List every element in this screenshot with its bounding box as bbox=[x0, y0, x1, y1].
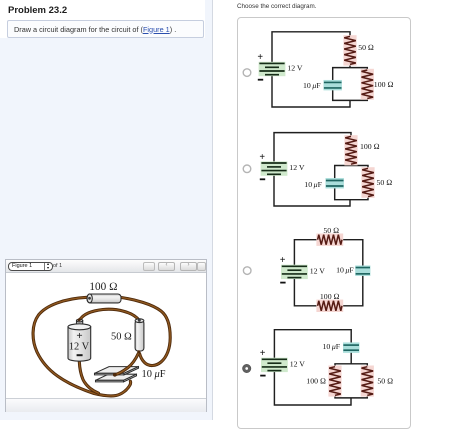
wire option2 outer loop bbox=[274, 133, 351, 206]
resistor R 50ohm option4 highlight bbox=[361, 366, 374, 397]
battery option3 minus terminal label bbox=[280, 282, 285, 284]
battery option1 minus terminal label bbox=[258, 79, 263, 81]
svg-text:12 V: 12 V bbox=[290, 360, 306, 369]
svg-text:+: + bbox=[257, 52, 263, 63]
wire battery+ to 50ohm resistor bbox=[79, 309, 139, 320]
figure toolbar small button bbox=[143, 262, 155, 271]
figure nav button next bbox=[180, 262, 197, 271]
figure panel header bar bbox=[6, 260, 206, 273]
capacitor C option4 10uF highlight bbox=[343, 342, 359, 352]
wire option1 outer loop bbox=[272, 32, 350, 107]
resistor R 50ohm option4 zigzag bbox=[362, 367, 374, 396]
capacitor 10uF top plate bbox=[95, 367, 139, 375]
capacitor C option3 plates bbox=[356, 268, 370, 274]
svg-text:+: + bbox=[259, 152, 265, 163]
answer options box bbox=[237, 17, 411, 429]
option 4 radio button (selected) bbox=[243, 364, 251, 372]
wire option1 inner parallel box bbox=[333, 68, 368, 101]
svg-text:50 Ω: 50 Ω bbox=[377, 178, 393, 187]
resistor R 50ohm option2 highlight bbox=[361, 167, 374, 198]
resistor R 100ohm option4 zigzag bbox=[329, 367, 341, 396]
wire battery- down to bottom junction bbox=[79, 361, 98, 393]
battery option3 cell plates bbox=[282, 266, 307, 277]
resistor R 100ohm option2 zigzag bbox=[345, 136, 357, 164]
svg-text:10 μF: 10 μF bbox=[336, 265, 354, 274]
resistor R 100ohm option4 highlight bbox=[328, 366, 341, 397]
svg-text:100 Ω: 100 Ω bbox=[360, 142, 380, 151]
resistor R 50ohm option3 zigzag bbox=[318, 235, 342, 245]
resistor R 100ohm option3 zigzag bbox=[318, 301, 342, 311]
resistor R 50ohm option2 zigzag bbox=[362, 168, 374, 196]
resistor R 100ohm option1 zigzag bbox=[362, 70, 374, 99]
problem title bbox=[8, 5, 67, 16]
capacitor C option2 plates bbox=[326, 181, 344, 187]
resistor R 100ohm option1 highlight bbox=[361, 69, 374, 100]
battery option2 minus terminal label bbox=[260, 178, 265, 180]
figure count label bbox=[53, 262, 62, 270]
capacitor C option1 10uF highlight bbox=[324, 80, 342, 90]
battery option1 cell plates bbox=[259, 63, 284, 74]
resistor R 50ohm option3 highlight bbox=[316, 234, 343, 246]
svg-text:10 μF: 10 μF bbox=[323, 342, 341, 351]
wire 100ohm right end around right side to 50ohm bottom bbox=[121, 297, 171, 365]
junction dot battery top terminal bbox=[78, 318, 81, 321]
vertical separator line bbox=[212, 0, 213, 420]
wire option4 outer loop bbox=[274, 330, 351, 405]
svg-text:12 V: 12 V bbox=[289, 163, 305, 172]
battery option4 minus terminal label bbox=[260, 375, 265, 377]
svg-text:12 V: 12 V bbox=[287, 64, 303, 73]
instruction box bbox=[7, 20, 204, 38]
battery B option2 12V highlight bbox=[261, 161, 288, 175]
option 1 circuit: 50ohm in series with (10uF parallel 100ohm) bbox=[243, 32, 393, 107]
option 3 radio button (unselected) bbox=[243, 267, 251, 275]
battery 12V terminal nub bbox=[77, 319, 83, 325]
left problem panel background bbox=[0, 38, 212, 420]
battery B option3 12V highlight bbox=[281, 265, 308, 279]
svg-text:100 Ω: 100 Ω bbox=[306, 377, 326, 386]
battery option4 cell plates bbox=[262, 359, 287, 370]
battery option2 cell plates bbox=[261, 163, 286, 174]
battery B option4 12V highlight bbox=[261, 358, 288, 372]
capacitor 10uF bottom plate bbox=[96, 374, 137, 382]
resistor R 50ohm option1 highlight bbox=[343, 35, 356, 65]
battery minus sign label bbox=[77, 354, 83, 356]
wire option3 loop bbox=[294, 240, 362, 306]
wire option2 inner parallel box bbox=[335, 166, 368, 200]
resistor 50ohm cylinder bbox=[135, 319, 144, 353]
svg-text:50 Ω: 50 Ω bbox=[358, 43, 374, 52]
figure panel bbox=[5, 259, 207, 412]
figure toolbar right button bbox=[197, 262, 206, 271]
resistor R 50ohm option1 zigzag bbox=[344, 36, 356, 64]
svg-text:10 μF: 10 μF bbox=[304, 180, 322, 189]
figure selector dropdown bbox=[8, 262, 53, 271]
capacitor C option1 plates bbox=[324, 82, 342, 88]
capacitor C option4 plates bbox=[343, 345, 359, 350]
option 2 radio button (unselected) bbox=[243, 165, 251, 173]
wire 50ohm bottom to capacitor top plate bbox=[115, 354, 139, 375]
resistor 100ohm cylinder bbox=[87, 294, 121, 303]
option 3 circuit: series loop 50ohm, 10uF, 100ohm bbox=[243, 226, 370, 312]
panel gutter strip bbox=[205, 0, 212, 420]
option 4 circuit (selected): 10uF in series with (100ohm parallel 50ohm) bbox=[243, 330, 394, 405]
svg-text:+: + bbox=[280, 255, 286, 266]
wire 100ohm left end around left side to capacitor bottom plate bbox=[33, 297, 131, 396]
capacitor C option3 10uF highlight bbox=[355, 266, 370, 276]
figure nav button previous bbox=[158, 262, 175, 271]
svg-text:100 Ω: 100 Ω bbox=[320, 292, 340, 301]
right panel prompt bbox=[237, 3, 316, 10]
option 2 circuit: 100ohm in series with (10uF parallel 50ohm) bbox=[243, 133, 392, 206]
capacitor C option2 10uF highlight bbox=[326, 178, 344, 188]
battery 12V body bbox=[68, 324, 91, 361]
option 1 radio button (unselected) bbox=[243, 69, 251, 77]
svg-text:12 V: 12 V bbox=[310, 267, 326, 276]
battery B option1 12V highlight bbox=[259, 62, 286, 76]
resistor R 100ohm option2 highlight bbox=[344, 135, 357, 165]
svg-text:100 Ω: 100 Ω bbox=[374, 80, 394, 89]
svg-text:50 Ω: 50 Ω bbox=[323, 226, 339, 235]
junction dot wire end between capacitor plates bbox=[113, 373, 117, 377]
resistor R 100ohm option3 highlight bbox=[316, 300, 343, 312]
svg-text:10 μF: 10 μF bbox=[303, 81, 321, 90]
wire option4 inner parallel box bbox=[335, 364, 367, 398]
figure panel footer bar bbox=[6, 398, 206, 412]
svg-text:+: + bbox=[260, 348, 266, 359]
svg-text:50 Ω: 50 Ω bbox=[377, 377, 393, 386]
